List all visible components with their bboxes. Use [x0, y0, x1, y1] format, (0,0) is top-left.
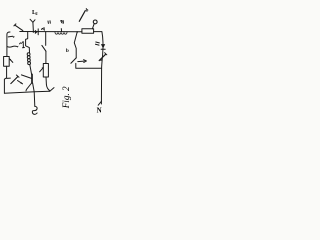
svg-text:N: N — [97, 107, 102, 115]
svg-text:b: b — [86, 9, 89, 14]
svg-text:2: 2 — [35, 11, 37, 16]
svg-text:Fig. 2: Fig. 2 — [61, 86, 71, 109]
svg-text:b: b — [66, 49, 69, 54]
